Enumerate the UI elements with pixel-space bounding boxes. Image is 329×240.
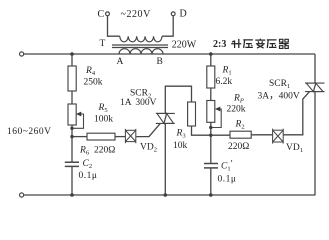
node R5 wiper tie bbox=[70, 127, 73, 130]
label qi (器) pseudo-glyph bbox=[279, 39, 289, 48]
wire Rp bottom node bbox=[210, 122, 212, 163]
wire bottom rail bbox=[24, 194, 316, 196]
potentiometer R5 100k body bbox=[68, 104, 76, 125]
capacitor C2 0.1u bbox=[65, 161, 79, 163]
label bian (变) pseudo-glyph bbox=[255, 39, 265, 49]
diac VD1 bbox=[273, 129, 284, 144]
wire VD2 to SCR2 gate bbox=[136, 123, 160, 136]
wire left column from rail bbox=[71, 54, 73, 66]
diac VD2 bbox=[125, 129, 135, 143]
node Rp wiper tie bbox=[209, 126, 212, 129]
wire R1 to Rp bbox=[210, 88, 212, 101]
wire SCR2 top to R3 top bbox=[165, 86, 191, 113]
svg-text:220Ω: 220Ω bbox=[94, 145, 115, 155]
svg-text:C2: C2 bbox=[83, 159, 93, 170]
svg-text:R1: R1 bbox=[222, 66, 232, 77]
node SCR2 / bottom rail bbox=[164, 193, 168, 197]
potentiometer Rp 220k body bbox=[207, 101, 215, 123]
svg-text:0.1μ: 0.1μ bbox=[218, 174, 237, 184]
svg-text:R3: R3 bbox=[176, 129, 186, 140]
terminal D bbox=[171, 12, 175, 16]
resistor R6 220ohm bbox=[87, 133, 115, 140]
resistor R1 6.2k bbox=[207, 66, 215, 88]
svg-text:0.1μ: 0.1μ bbox=[79, 171, 98, 181]
svg-text:C1′: C1′ bbox=[221, 159, 233, 172]
node C2 / bottom rail bbox=[70, 193, 74, 197]
wire R2 to VD1 bbox=[251, 134, 272, 136]
svg-text:1A 300V: 1A 300V bbox=[120, 98, 157, 108]
wire right edge (SCR1 anode side) bbox=[314, 54, 316, 83]
svg-text:R4: R4 bbox=[85, 66, 96, 77]
potentiometer Rp wiper bbox=[211, 109, 221, 128]
svg-text:VD1: VD1 bbox=[286, 143, 303, 154]
svg-text:SCR1: SCR1 bbox=[269, 79, 290, 90]
svg-text:160~260V: 160~260V bbox=[7, 127, 52, 137]
node top rail / R1 bbox=[209, 52, 213, 56]
svg-text:220W: 220W bbox=[172, 40, 197, 51]
label ya (压) pseudo-glyph bbox=[243, 40, 253, 48]
svg-text:B: B bbox=[157, 57, 163, 67]
node R3-R2-C1 junction bbox=[209, 134, 212, 137]
wire node to R2 bbox=[211, 134, 230, 136]
resistor R3 10k bbox=[188, 102, 196, 126]
node R6 branch bbox=[70, 135, 73, 138]
svg-text:T: T bbox=[100, 39, 106, 49]
wire right edge lower bbox=[314, 92, 316, 195]
triac SCR2 1A 300V bbox=[156, 113, 175, 123]
svg-text:VD2: VD2 bbox=[140, 142, 157, 153]
svg-text:R2: R2 bbox=[235, 120, 245, 131]
capacitor C1' 0.1u bbox=[204, 163, 218, 165]
svg-text:C: C bbox=[98, 9, 105, 20]
resistor R4 250k bbox=[68, 66, 76, 91]
svg-text:RP: RP bbox=[233, 94, 244, 105]
wire R1 column from rail bbox=[210, 54, 212, 66]
transformer T core bbox=[112, 44, 168, 46]
svg-text:100k: 100k bbox=[94, 114, 113, 124]
svg-text:220Ω: 220Ω bbox=[228, 142, 249, 152]
svg-text:220k: 220k bbox=[227, 105, 246, 115]
wire between R4 and R5 bbox=[71, 91, 73, 104]
transformer T secondary winding (A-B in series with top rail) bbox=[119, 49, 163, 54]
svg-text:R5: R5 bbox=[98, 103, 108, 114]
wire R6 to VD2 bbox=[115, 136, 125, 138]
wire R3 bottom to node bbox=[192, 126, 211, 135]
wire D lead bbox=[162, 16, 173, 36]
svg-text:250k: 250k bbox=[84, 78, 103, 88]
svg-text:D: D bbox=[180, 9, 187, 20]
triac SCR1 3A 400V bbox=[305, 83, 325, 92]
svg-text:R6: R6 bbox=[79, 145, 90, 156]
label ya2 (压) pseudo-glyph bbox=[267, 40, 277, 48]
wire R6 branch bbox=[72, 136, 87, 138]
wire left column lower bbox=[71, 125, 73, 162]
wire SCR2 cathode to bottom rail bbox=[164, 123, 166, 195]
svg-text:6.2k: 6.2k bbox=[216, 77, 233, 87]
label sheng (升) pseudo-glyph bbox=[231, 39, 241, 48]
terminal input top-left bbox=[20, 52, 24, 56]
svg-text:~220V: ~220V bbox=[121, 9, 152, 20]
svg-text:10k: 10k bbox=[173, 141, 188, 151]
potentiometer R5 wiper bbox=[72, 114, 84, 128]
wire top rail bbox=[24, 53, 315, 55]
node top rail / R4 bbox=[70, 52, 74, 56]
svg-text:3A，400V: 3A，400V bbox=[258, 91, 300, 101]
terminal C bbox=[106, 12, 110, 16]
resistor R2 220ohm bbox=[230, 131, 251, 138]
node C1' / bottom rail bbox=[209, 193, 213, 197]
terminal input bottom-left bbox=[20, 193, 24, 197]
svg-text:A: A bbox=[117, 57, 124, 67]
wire VD1 to SCR1 gate bbox=[283, 92, 309, 135]
svg-text:2:3: 2:3 bbox=[213, 39, 226, 50]
transformer T primary winding bbox=[120, 36, 162, 42]
wire C lead bbox=[108, 16, 120, 36]
